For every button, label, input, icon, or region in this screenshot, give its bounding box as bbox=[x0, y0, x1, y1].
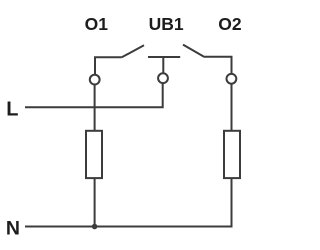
resistor R2 (load on O2) bbox=[224, 131, 240, 178]
svg-text:N: N bbox=[6, 217, 20, 239]
wire resistor R1 to N line bbox=[94, 178, 96, 226]
junction dot on N line bbox=[92, 224, 98, 230]
wire O2 circle to switch corner bbox=[203, 57, 231, 74]
wire O1 circle to resistor R1 (crosses L line) bbox=[94, 85, 96, 130]
terminal circle O1 bbox=[90, 75, 100, 85]
wire L line to UB1 riser bbox=[25, 83, 163, 107]
wire UB1 circle to T-bar bbox=[162, 57, 164, 74]
svg-text:L: L bbox=[6, 98, 18, 120]
svg-text:UB1: UB1 bbox=[149, 14, 184, 34]
switch blade O2 bbox=[183, 45, 204, 57]
T-bar actuator UB1 bbox=[148, 56, 180, 58]
terminal circle UB1 bbox=[158, 73, 168, 83]
resistor R1 (load on O1) bbox=[86, 131, 102, 178]
svg-text:O2: O2 bbox=[218, 14, 242, 34]
terminal circle O2 bbox=[227, 74, 237, 84]
wire N line bbox=[25, 178, 232, 226]
wire resistor R2 to O2 circle bbox=[231, 84, 233, 130]
svg-text:O1: O1 bbox=[85, 14, 109, 34]
switch blade O1 bbox=[122, 45, 144, 57]
wire O1 horizontal and drop to circle bbox=[95, 57, 122, 74]
